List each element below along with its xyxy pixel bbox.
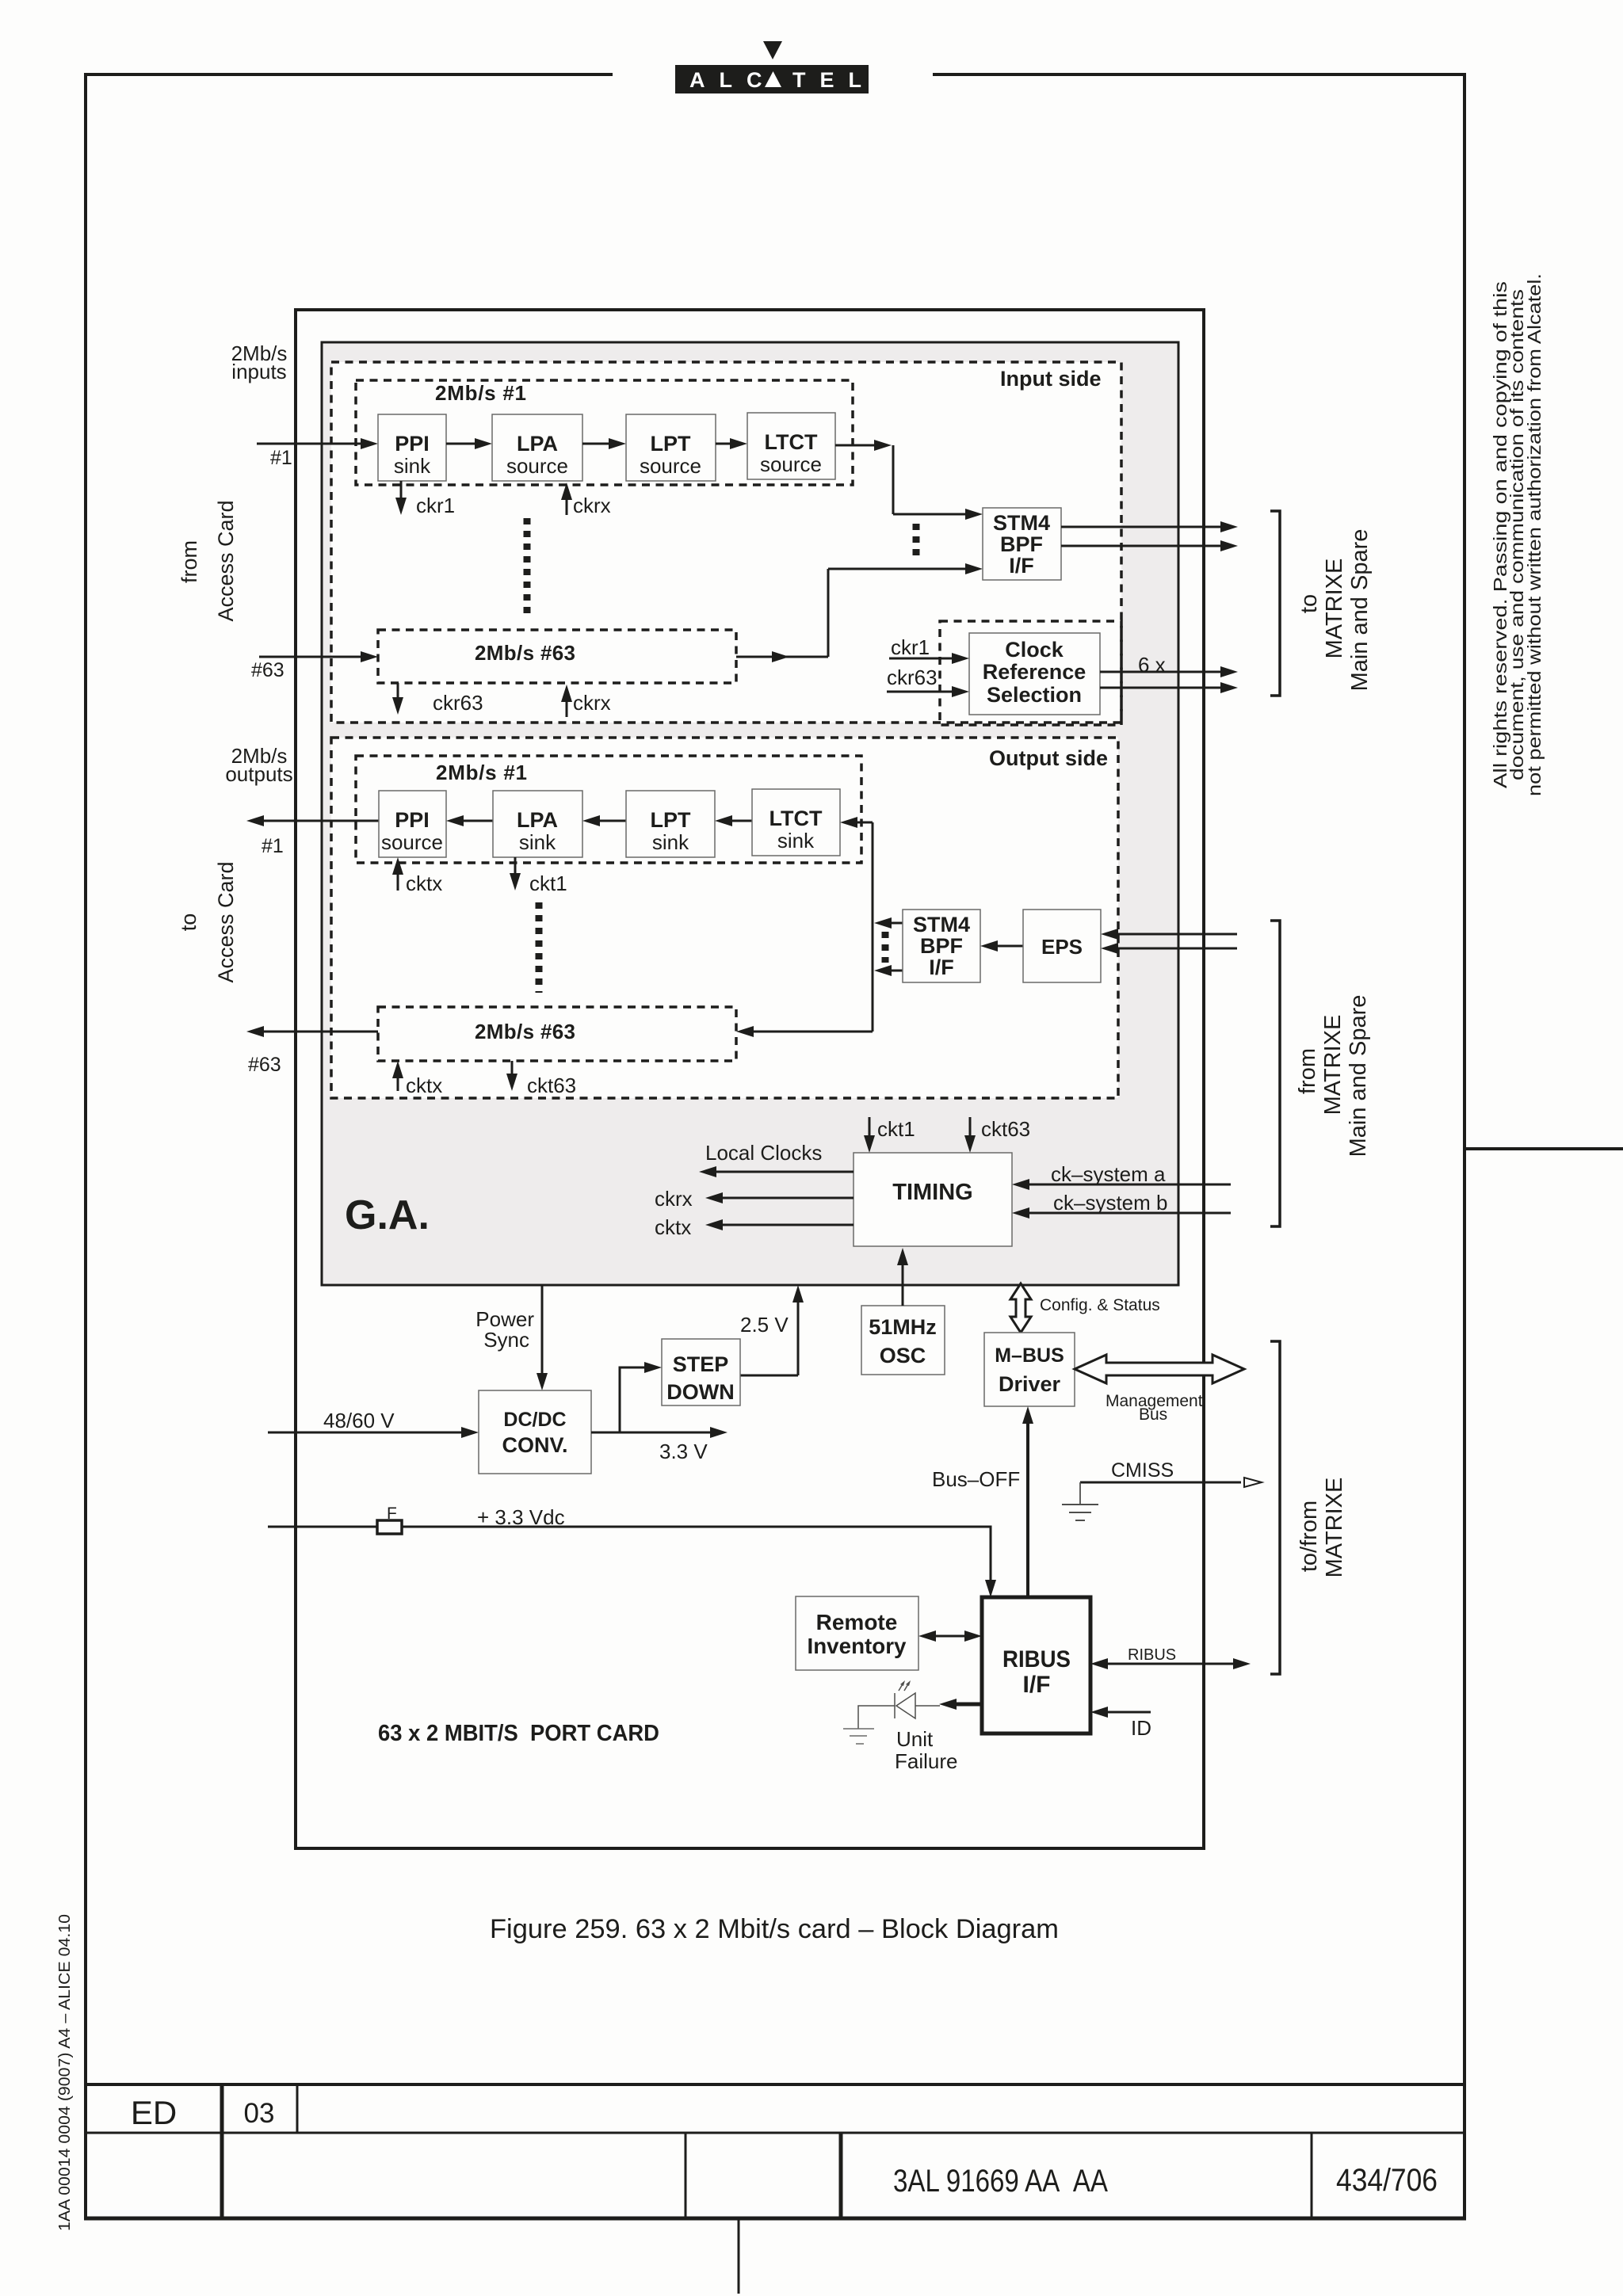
svg-text:G.A.: G.A. [345,1192,430,1238]
svg-text:from: from [1295,1048,1320,1094]
fuse F [377,1520,402,1534]
svg-text:Local Clocks: Local Clocks [705,1141,822,1165]
wire OSC to TIMING [902,1262,904,1306]
table divider ED/03 (both rows) [220,2084,224,2218]
dotted line between STM4 outputs [882,932,889,963]
svg-text:cktx: cktx [406,1074,442,1097]
svg-text:#63: #63 [248,1054,281,1076]
svg-text:ckt63: ckt63 [527,1074,576,1097]
wire Power Sync down [541,1285,544,1376]
Alcatel logo letter-A triangle [765,71,781,87]
svg-text:Failure: Failure [895,1749,957,1773]
wire EPS to STM4 [995,945,1023,948]
2Mb/s #63 input dashed box [378,630,736,683]
STEP DOWN box [662,1339,740,1405]
bottom centre fold tick [738,2218,740,2294]
svg-text:1AA 00014 0004 (9007) A4 – ALI: 1AA 00014 0004 (9007) A4 – ALICE 04.10 [56,1914,74,2231]
wire ckt1 into TIMING [869,1117,871,1138]
svg-text:OSC: OSC [880,1344,926,1367]
Input side dashed box [331,362,1121,723]
wire CMISS [1080,1482,1241,1484]
svg-text:ckrx: ckrx [573,494,611,517]
svg-text:inputs: inputs [231,360,286,383]
wire vertical feed (output side) [872,822,874,1032]
svg-text:ckrx: ckrx [655,1187,693,1211]
main port-card outer box [296,310,1204,1848]
svg-text:51MHz: 51MHz [869,1315,937,1339]
svg-text:PPI: PPI [395,808,430,832]
svg-text:#63: #63 [251,659,285,681]
svg-text:BPF: BPF [920,934,963,958]
wire #63 out [736,656,828,658]
wire ckt63 down from #63 output box [511,1061,514,1077]
wire STEP DOWN to 2.5V riser [740,1375,798,1377]
svg-text:#1: #1 [270,447,292,469]
LPA sink box [493,791,582,857]
G.A. grey gate-array box [322,342,1178,1285]
LPT sink box [626,791,715,857]
wire Local Clocks out [713,1171,854,1173]
svg-text:ckr1: ckr1 [891,635,930,659]
svg-text:outputs: outputs [225,762,292,786]
svg-text:LPT: LPT [651,432,692,456]
wire LPT to LPA (output) [597,820,626,822]
LED feed line [915,1705,940,1707]
svg-text:RIBUS: RIBUS [1002,1646,1071,1672]
STM4 BPF I/F box (input side) [983,508,1061,580]
svg-text:source: source [506,454,568,478]
wire LTCT out to corner [835,444,877,447]
svg-text:Sync: Sync [483,1328,529,1352]
wire LPT to LTCT [716,443,733,445]
wire #63 up corner [827,569,830,657]
svg-text:Access Card: Access Card [214,500,238,621]
wire Unit Failure out of RIBUS [953,1703,982,1707]
svg-text:ckr63: ckr63 [433,691,483,715]
Remote Inventory box [796,1596,918,1670]
svg-text:#1: #1 [262,835,284,857]
wire PPI to LPA [446,443,478,445]
svg-text:ckt1: ckt1 [877,1117,915,1141]
wire input #63 [259,656,364,658]
CMISS ground [1062,1504,1098,1505]
svg-text:sink: sink [777,829,815,852]
wire cktx up into PPI source [397,871,399,891]
svg-text:sink: sink [652,830,689,854]
svg-text:2Mb/s #63: 2Mb/s #63 [475,1020,575,1043]
svg-text:LTCT: LTCT [769,807,823,830]
svg-text:Inventory: Inventory [808,1634,907,1658]
table divider bottom row 2 [839,2133,843,2218]
svg-text:ck–system b: ck–system b [1053,1191,1168,1215]
wire STM4 output 2 [1061,545,1224,547]
wire ckt63 into TIMING [969,1117,972,1138]
wire LPA to PPI (output) [460,820,493,822]
bracket to/from MATRIXE [1270,1341,1280,1674]
svg-text:RIBUS: RIBUS [1128,1646,1176,1664]
dotted continuation line (input channels) [524,518,531,615]
svg-text:Unit: Unit [896,1727,934,1751]
svg-text:Figure 259. 63 x 2 Mbit/s card: Figure 259. 63 x 2 Mbit/s card – Block D… [490,1914,1059,1944]
LED to ground wire [858,1706,895,1729]
svg-text:source: source [381,830,443,854]
DC/DC CONV box [479,1390,591,1474]
wire LPA to LPT [582,443,612,445]
Clock Reference Selection dashed box [940,621,1121,725]
svg-text:LPA: LPA [517,432,558,456]
table divider bottom row 1 [685,2133,687,2218]
svg-text:DC/DC: DC/DC [503,1409,566,1431]
dotted continuation line (output channels) [536,902,543,993]
Config & Status double arrow [1010,1283,1031,1333]
wire output #63 [261,1031,378,1033]
svg-text:MATRIXE: MATRIXE [1322,559,1347,659]
wire STM4 out to feed 2 [888,970,903,972]
svg-text:I/F: I/F [929,955,954,979]
wire ckrx up into LPA [566,497,568,515]
wire cktx out [720,1224,854,1226]
LED light rays [899,1683,903,1691]
page frame top border (right segment) [933,73,1466,76]
wire ckrx out [720,1197,854,1199]
right fold mark [1465,1147,1623,1150]
wire Remote Inventory to RIBUS (double arrow) [931,1635,969,1638]
dotted line between STM4 inputs [913,524,920,561]
svg-text:Bus–OFF: Bus–OFF [932,1467,1020,1491]
svg-text:CMISS: CMISS [1111,1459,1174,1482]
svg-text:TEL: TEL [792,68,876,92]
wire into EPS 1 [1115,933,1237,936]
svg-text:ED: ED [131,2094,177,2131]
wire riser to STEP DOWN [620,1367,647,1432]
svg-text:03: 03 [244,2098,275,2129]
svg-text:M–BUS: M–BUS [995,1344,1064,1367]
LED ground [843,1728,874,1730]
svg-text:Config. & Status: Config. & Status [1040,1296,1160,1314]
wire ck-system a into TIMING [1026,1184,1231,1186]
Management Bus double arrow [1075,1355,1244,1383]
CMISS open arrowhead [1244,1478,1262,1487]
table top line [84,2083,1466,2086]
table divider bottom row 3 [1311,2133,1313,2218]
wire LTCT to LPT (output) [729,820,752,822]
PPI sink box [378,414,446,481]
svg-text:3AL 91669 AA AA: 3AL 91669 AA AA [893,2164,1108,2199]
wire STM4 out to feed 1 [888,922,903,925]
wire corner down [892,445,895,514]
Alcatel logo box [675,65,869,93]
wire ID into RIBUS [1105,1711,1151,1714]
CMISS ground stem [1079,1482,1081,1505]
svg-text:Remote: Remote [816,1610,898,1634]
wire cktx up into #63 output box [397,1075,399,1091]
svg-text:source: source [760,452,822,476]
svg-text:ID: ID [1131,1716,1151,1740]
svg-text:63 x 2 MBIT/S PORT CARD: 63 x 2 MBIT/S PORT CARD [378,1721,659,1746]
EPS box [1023,910,1101,982]
svg-text:Reference: Reference [983,660,1086,684]
svg-text:cktx: cktx [406,871,442,895]
svg-text:2Mb/s #1: 2Mb/s #1 [436,761,527,784]
svg-text:to/from: to/from [1296,1501,1322,1572]
svg-text:ckt1: ckt1 [529,871,567,895]
svg-text:sink: sink [394,454,431,478]
LTCT source box [747,413,835,479]
svg-text:STEP: STEP [673,1352,729,1376]
wire STM4 output 1 [1061,526,1224,528]
wire ckt1 down from LPA sink [514,857,517,876]
svg-text:3.3 V: 3.3 V [659,1440,708,1463]
svg-text:ALC: ALC [689,68,777,92]
svg-text:LPA: LPA [517,808,558,832]
svg-text:ckr63: ckr63 [887,666,938,689]
Alcatel logo triangle [763,41,782,59]
svg-text:Selection: Selection [987,683,1082,707]
svg-text:not permitted without written: not permitted without written authorizat… [1524,273,1545,796]
svg-text:Output side: Output side [989,746,1108,770]
Clock Reference Selection box [969,633,1100,715]
svg-text:MATRIXE: MATRIXE [1320,1015,1346,1116]
svg-text:Main and Spare: Main and Spare [1346,995,1371,1158]
svg-text:LTCT: LTCT [765,430,818,454]
M-BUS Driver box [984,1333,1075,1406]
svg-text:434/706: 434/706 [1336,2163,1438,2198]
svg-text:Driver: Driver [999,1372,1061,1396]
PPI source box [379,791,446,857]
wire ckrx up into #63 box [566,699,568,717]
2Mb/s #63 output dashed box [378,1007,736,1061]
svg-text:sink: sink [519,830,556,854]
svg-text:I/F: I/F [1023,1672,1051,1698]
svg-text:Clock: Clock [1005,638,1064,662]
svg-text:to: to [1296,594,1322,613]
svg-text:cktx: cktx [655,1215,691,1239]
LTCT sink box [752,789,840,856]
wire into #63 output box [750,1031,873,1033]
wire Bus-OFF [1026,1421,1029,1597]
STM4 BPF I/F box (output side) [903,910,980,982]
Output side dashed box [331,738,1118,1098]
svg-text:PPI: PPI [395,432,430,456]
wire 2.5V up into G.A. [797,1299,800,1375]
svg-text:TIMING: TIMING [892,1180,973,1205]
page frame right border [1463,73,1466,2220]
svg-text:2Mb/s #1: 2Mb/s #1 [435,381,526,405]
svg-text:ckrx: ckrx [573,691,611,715]
wire ckr63 down from #63 box [397,683,399,700]
svg-text:48/60 V: 48/60 V [323,1409,395,1432]
svg-text:2Mb/s #63: 2Mb/s #63 [475,641,575,665]
page frame top border (left segment) [84,73,613,76]
wire RIBUS bus (double arrow) [1103,1663,1238,1665]
wire into LTCT sink [854,822,873,824]
svg-text:STM4: STM4 [993,511,1050,535]
51MHz OSC box [861,1306,945,1375]
LPT source box [626,414,716,481]
page frame left border [84,73,87,2220]
svg-text:ck–system a: ck–system a [1051,1162,1166,1186]
2Mb/s #1 input dashed box [356,380,853,485]
svg-text:ckr1: ckr1 [416,494,455,517]
svg-text:I/F: I/F [1009,554,1034,578]
svg-text:F: F [387,1505,397,1523]
wire clock output 1 [1100,671,1224,673]
svg-text:source: source [640,454,701,478]
2Mb/s #1 output dashed box [356,756,861,863]
wire into EPS 2 [1115,948,1237,950]
wire clock output 2 [1100,687,1224,689]
svg-text:Access Card: Access Card [214,861,238,982]
svg-text:to: to [177,913,200,932]
bracket from MATRIXE [1270,921,1280,1226]
LED diode symbol [896,1693,915,1718]
table divider right of 03 [296,2084,299,2133]
TIMING box [854,1153,1012,1246]
svg-text:LPT: LPT [651,808,692,832]
wire ckr63 into clock box [887,691,955,693]
svg-text:MATRIXE: MATRIXE [1322,1478,1347,1578]
table middle line [84,2132,1466,2134]
bracket to MATRIXE [1270,511,1280,696]
svg-text:2.5 V: 2.5 V [740,1313,789,1337]
svg-text:EPS: EPS [1041,935,1083,959]
svg-text:CONV.: CONV. [502,1433,567,1457]
svg-text:Bus: Bus [1139,1405,1167,1424]
RIBUS I/F box [982,1597,1090,1733]
wire ck-system b into TIMING [1026,1212,1231,1215]
LPA source box [492,414,582,481]
svg-text:DOWN: DOWN [666,1380,734,1404]
svg-text:STM4: STM4 [913,913,970,936]
wire DC/DC out 3.3V [591,1432,713,1434]
svg-text:BPF: BPF [1000,532,1043,556]
wire input #1 [257,443,364,445]
svg-text:ckt63: ckt63 [981,1117,1030,1141]
wire into STM4 top input [893,513,968,516]
wire +3.3Vdc [268,1527,991,1583]
svg-text:Main and Spare: Main and Spare [1347,529,1373,692]
wire ckr1 into clock box [889,658,955,660]
svg-text:from: from [178,540,201,583]
svg-text:Input side: Input side [1000,367,1102,391]
wire into STM4 bottom input [828,568,968,570]
wire 48/60V into DC/DC [268,1432,464,1434]
wire output #1 [261,820,379,822]
wire ckr1 down from PPI [400,481,403,501]
table bottom line [84,2217,1466,2221]
